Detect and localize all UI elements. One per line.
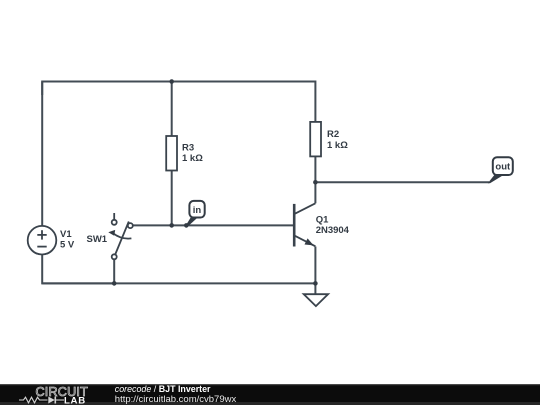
footer bar [0,384,540,405]
svg-text:2N3904: 2N3904 [316,225,350,236]
net flag out [488,157,513,183]
svg-text:5 V: 5 V [60,240,75,251]
junction dot switch bottom [112,281,117,286]
ground [304,283,328,306]
resistor R2 [310,122,321,156]
wire emitter to ground junction [314,247,316,284]
svg-text:Q1: Q1 [316,215,329,226]
svg-text:1 kΩ: 1 kΩ [327,140,348,151]
wire out horizontal [315,181,489,183]
wire R2 bottom to collector [314,156,316,204]
svg-text:R2: R2 [327,129,339,140]
net flag in [186,201,205,226]
wire switch bottom to ground rail [113,259,115,283]
wire R3 top branch [171,82,173,137]
resistor R3 [166,136,177,171]
svg-text:R3: R3 [182,143,194,154]
svg-text:V1: V1 [60,229,72,240]
svg-text:LAB: LAB [64,395,86,405]
wire left vertical below V1 [42,255,114,284]
switch SW1 [108,213,133,259]
footer CircuitLab logo [19,385,88,405]
svg-text:http://circuitlab.com/cvb79wx: http://circuitlab.com/cvb79wx [115,394,237,405]
junction dot R3 top [169,79,174,84]
svg-text:1 kΩ: 1 kΩ [182,153,203,164]
junction dot collector/out [313,180,318,185]
svg-text:corecode / BJT Inverter: corecode / BJT Inverter [115,384,211,394]
junction dot R3 bottom [169,223,174,228]
wire bottom horizontal [42,282,315,284]
wire left vertical above V1 [41,82,43,227]
junction dot in-flag [184,223,189,228]
svg-text:in: in [193,205,202,216]
junction dot ground [313,281,318,286]
voltage source V1 [28,226,57,255]
svg-text:out: out [495,162,511,173]
transistor Q1 [294,203,315,246]
svg-text:SW1: SW1 [87,234,108,245]
wire base horizontal switch to Q1 [133,224,294,226]
wire R3 bottom branch [171,171,173,226]
wire top horizontal V1 to R2 [42,82,315,122]
